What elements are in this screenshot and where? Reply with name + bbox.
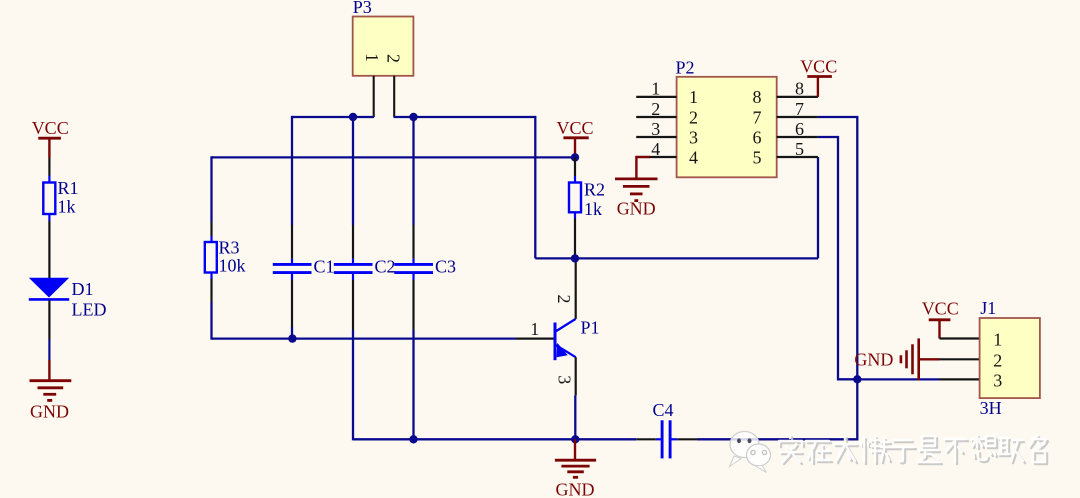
svg-text:P2: P2	[676, 58, 695, 78]
svg-text:3: 3	[555, 375, 575, 384]
svg-text:7: 7	[753, 107, 762, 127]
capacitor C4	[653, 400, 674, 459]
svg-text:1k: 1k	[58, 197, 76, 217]
wire bus down through C3	[412, 117, 414, 264]
P2 pin 8 stub	[777, 96, 818, 98]
wire bottom rail left (C2 elbow to C4)	[353, 438, 636, 440]
svg-text:8: 8	[753, 87, 762, 107]
svg-text:3: 3	[689, 127, 698, 147]
wire R3 bottom to base wire	[210, 273, 212, 340]
C4 right pin	[671, 438, 677, 440]
svg-text:2: 2	[384, 54, 404, 63]
J1 pin 1 stub	[940, 337, 980, 339]
P2 pin 2 stub	[636, 116, 676, 118]
connector P3	[353, 0, 414, 76]
LED D1	[29, 278, 107, 320]
svg-text:8: 8	[795, 79, 804, 99]
power VCC (left, above R1)	[32, 118, 69, 158]
junction dot (353,117)	[349, 113, 357, 121]
svg-text:C1: C1	[314, 257, 335, 277]
Q1 base pin stub	[516, 338, 554, 340]
svg-text:5: 5	[753, 147, 762, 167]
svg-text:1k: 1k	[584, 199, 602, 219]
svg-text:4: 4	[689, 147, 698, 167]
Q1 emitter pin down	[574, 357, 577, 439]
P2 pin 5 stub	[777, 156, 818, 158]
power VCC (at P2 pin 8)	[800, 57, 837, 97]
wire junction to J1 pin 3	[857, 378, 939, 380]
svg-text:VCC: VCC	[922, 299, 959, 319]
power VCC (above R2)	[556, 118, 593, 156]
svg-text:2: 2	[651, 99, 660, 119]
capacitor C3	[394, 257, 456, 277]
svg-text:3: 3	[993, 371, 1002, 391]
svg-text:GND: GND	[556, 480, 595, 498]
junction dot (292,337.5)	[288, 334, 296, 342]
svg-text:7: 7	[795, 99, 804, 119]
svg-text:C3: C3	[435, 257, 456, 277]
wire P2 pin 7 to J1 net	[818, 117, 857, 379]
svg-text:VCC: VCC	[32, 118, 69, 138]
wire mid rail (bus elbow to P2 pin5)	[535, 116, 818, 259]
junction dot (575.3,439.3)	[571, 435, 579, 443]
wire VCC to R1	[48, 158, 50, 183]
ground GND (below Q1 emitter)	[555, 439, 596, 498]
P3 pin 2 stub	[393, 76, 395, 117]
svg-text:10k: 10k	[219, 256, 246, 276]
svg-text:1: 1	[651, 79, 660, 99]
connector J1	[980, 298, 1040, 418]
P3 pin 1 stub	[373, 76, 375, 117]
capacitor C2	[334, 257, 396, 277]
svg-text:GND: GND	[854, 350, 893, 370]
svg-text:P3: P3	[353, 0, 372, 17]
P2 pin 7 stub	[777, 116, 818, 118]
svg-text:1: 1	[362, 53, 382, 62]
svg-text:R1: R1	[58, 178, 79, 198]
P2 pin 4 stub	[649, 156, 677, 158]
wire bottom rail right (C4 to J1 net corner)	[698, 379, 858, 439]
resistor R1	[43, 178, 78, 217]
junction dot (575,156.5)	[571, 153, 579, 161]
svg-text:2: 2	[993, 350, 1002, 370]
svg-text:GND: GND	[30, 402, 69, 422]
wire R2 bottom to collector	[574, 212, 576, 258]
svg-text:3H: 3H	[980, 398, 1002, 418]
svg-text:C4: C4	[653, 400, 674, 420]
svg-text:R3: R3	[219, 238, 240, 258]
P2 pin 3 stub	[636, 136, 676, 138]
wire C2 down to bottom wire	[352, 274, 354, 441]
J1 pin 2 stub	[940, 358, 980, 360]
wire bus down to C1	[291, 116, 293, 264]
junction dot (413.5,117)	[409, 113, 417, 121]
wire bus down through C2	[352, 117, 354, 264]
svg-text:5: 5	[795, 139, 804, 159]
ground GND (left, below D1)	[30, 360, 72, 422]
wire VCC junction to R2	[574, 157, 576, 182]
svg-text:VCC: VCC	[800, 57, 837, 77]
wire C3 down to bottom wire	[412, 274, 414, 440]
watermark wechat icon	[730, 432, 771, 473]
svg-text:D1: D1	[72, 279, 94, 299]
wire C1 down to base wire	[291, 274, 293, 339]
wire top bus right segment	[394, 116, 536, 118]
wire top bus left segment	[292, 116, 374, 118]
P2 pin 6 stub	[777, 136, 818, 138]
Q1 collector pin up	[575, 258, 577, 319]
transistor P1	[555, 318, 600, 361]
wire P2 pin 6 to J1 net	[818, 137, 857, 379]
svg-text:R2: R2	[584, 180, 605, 200]
wire R3 vertical	[210, 156, 212, 242]
power VCC (at J1 pin 1)	[922, 299, 959, 339]
svg-text:1: 1	[530, 319, 539, 339]
svg-text:1: 1	[993, 330, 1002, 350]
ground GND (at P2 pin 4)	[615, 157, 658, 219]
svg-text:GND: GND	[617, 199, 656, 219]
svg-text:J1: J1	[980, 298, 996, 318]
svg-text:6: 6	[753, 127, 762, 147]
junction dot (575,257.2)	[571, 254, 579, 262]
junction dot (413.5,439.3)	[409, 435, 417, 443]
junction dot (857.3,379.3)	[853, 375, 861, 383]
svg-text:1: 1	[689, 87, 698, 107]
svg-text:VCC: VCC	[556, 118, 593, 138]
svg-text:LED: LED	[72, 300, 107, 320]
wire D1 to ground	[48, 301, 50, 361]
ground GND (at J1 pin 2, rotated)	[854, 338, 939, 380]
svg-text:3: 3	[651, 119, 660, 139]
svg-text:C2: C2	[375, 257, 396, 277]
connector P2	[676, 58, 777, 178]
svg-text:2: 2	[554, 295, 574, 304]
C4 left pin	[636, 438, 656, 440]
svg-text:P1: P1	[581, 318, 600, 338]
wire R1 to D1	[48, 214, 50, 279]
P2 pin 1 stub	[636, 96, 676, 98]
svg-text:2: 2	[689, 107, 698, 127]
resistor R2	[569, 180, 605, 220]
J1 pin 3 stub	[940, 378, 980, 380]
svg-text:4: 4	[651, 139, 660, 159]
resistor R3	[205, 238, 246, 276]
svg-text:6: 6	[795, 119, 804, 139]
wire base horizontal	[212, 337, 517, 339]
capacitor C1	[273, 257, 335, 277]
wire R3 top rail (to VCC junction)	[212, 156, 576, 158]
